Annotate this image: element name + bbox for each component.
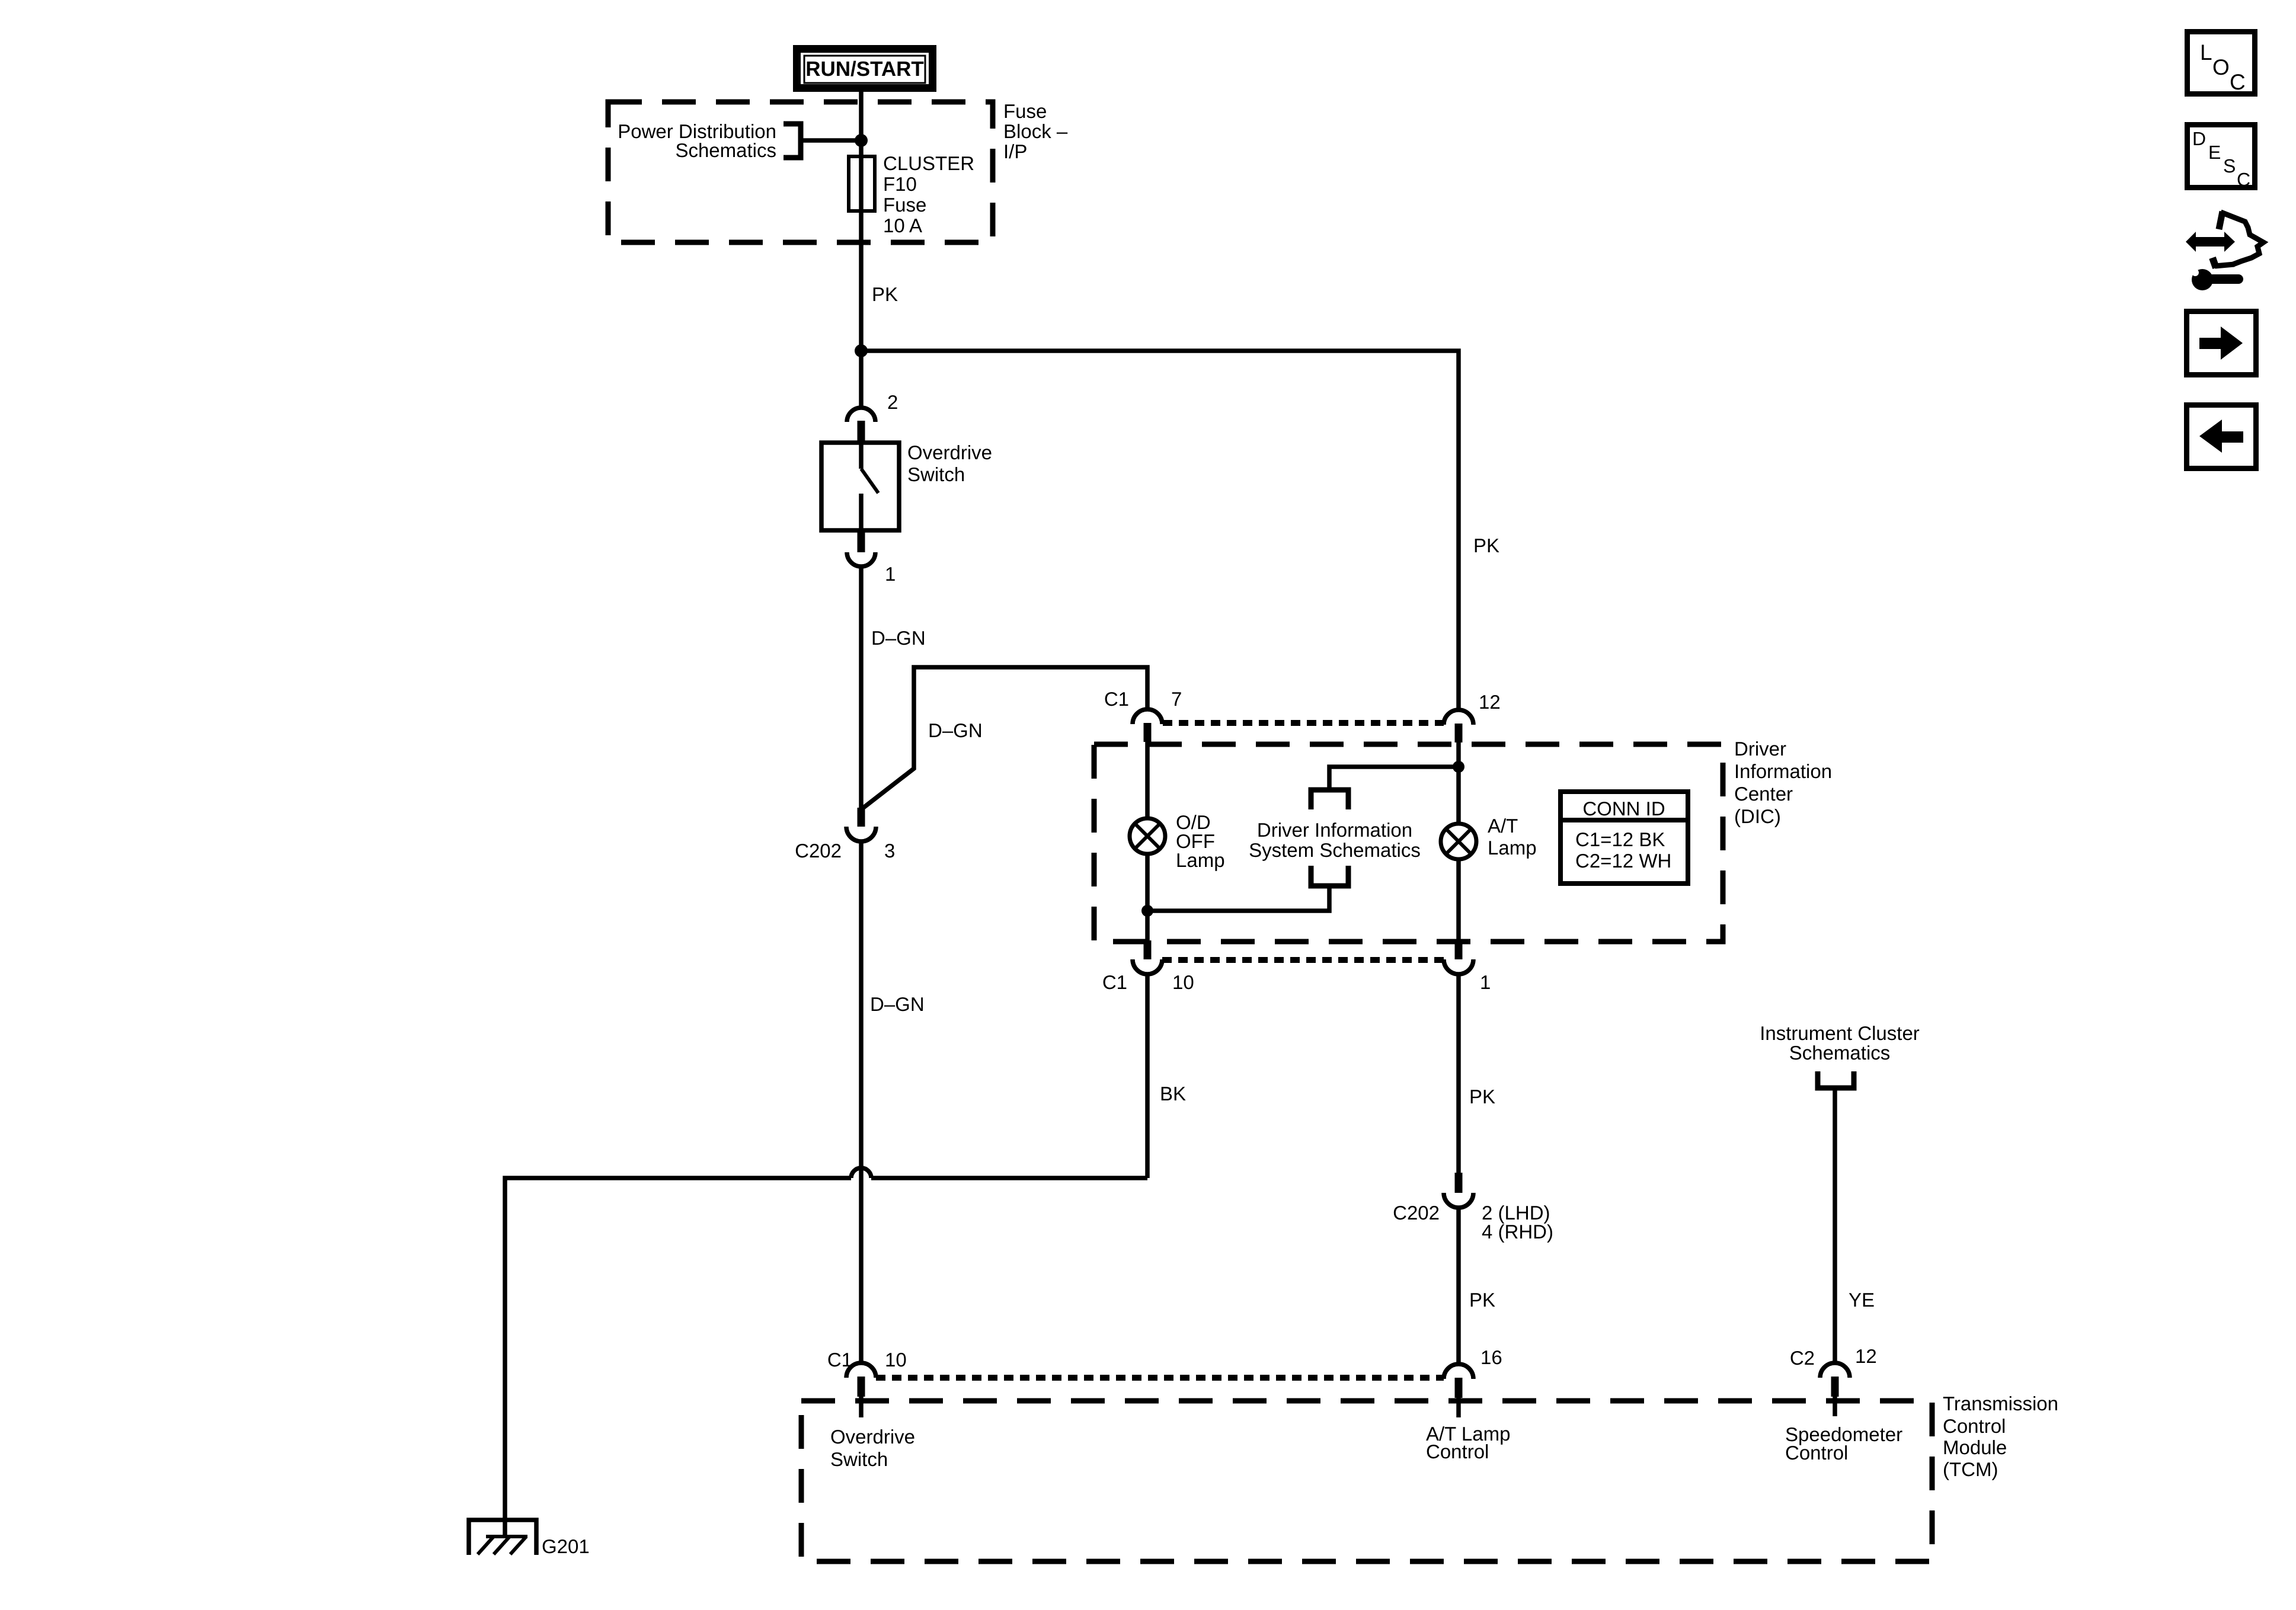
svg-text:Control: Control: [1785, 1442, 1848, 1464]
svg-text:F10: F10: [883, 173, 917, 195]
svg-text:O: O: [2212, 55, 2230, 79]
svg-text:Control: Control: [1943, 1415, 2006, 1437]
svg-text:10: 10: [885, 1349, 907, 1371]
svg-text:C2: C2: [1790, 1347, 1815, 1369]
svg-text:Overdrive: Overdrive: [830, 1426, 915, 1448]
svg-text:2: 2: [887, 391, 898, 413]
svg-text:PK: PK: [872, 283, 898, 305]
svg-text:PK: PK: [1469, 1289, 1495, 1311]
svg-text:CLUSTER: CLUSTER: [883, 152, 974, 174]
svg-text:16: 16: [1480, 1346, 1502, 1368]
svg-text:Driver: Driver: [1734, 738, 1786, 760]
svg-text:Instrument Cluster: Instrument Cluster: [1760, 1022, 1920, 1044]
svg-text:Driver Information: Driver Information: [1257, 819, 1412, 841]
svg-text:BK: BK: [1160, 1083, 1186, 1105]
svg-text:YE: YE: [1849, 1289, 1875, 1311]
svg-text:Block –: Block –: [1003, 120, 1068, 142]
svg-text:Schematics: Schematics: [675, 139, 776, 161]
svg-text:Switch: Switch: [830, 1448, 888, 1470]
svg-text:7: 7: [1171, 688, 1182, 710]
svg-text:D–GN: D–GN: [871, 627, 926, 649]
svg-text:10: 10: [1172, 971, 1194, 993]
svg-text:C1: C1: [1102, 971, 1127, 993]
svg-text:CONN ID: CONN ID: [1582, 798, 1665, 820]
svg-text:Switch: Switch: [907, 463, 965, 485]
svg-text:Fuse: Fuse: [1003, 100, 1047, 122]
svg-text:(DIC): (DIC): [1734, 805, 1781, 827]
svg-text:C202: C202: [1393, 1202, 1440, 1224]
svg-text:Module: Module: [1943, 1436, 2007, 1458]
svg-text:C: C: [2230, 70, 2246, 94]
svg-text:A/T: A/T: [1488, 815, 1518, 837]
svg-text:I/P: I/P: [1003, 140, 1027, 162]
svg-text:D–GN: D–GN: [928, 719, 983, 741]
svg-text:10 A: 10 A: [883, 215, 922, 236]
svg-text:C2=12 WH: C2=12 WH: [1575, 850, 1671, 872]
svg-text:Fuse: Fuse: [883, 194, 926, 216]
svg-text:G201: G201: [542, 1535, 590, 1557]
svg-text:PK: PK: [1473, 534, 1499, 556]
svg-text:C1: C1: [1104, 688, 1129, 710]
svg-text:(TCM): (TCM): [1943, 1458, 1998, 1480]
svg-text:4 (RHD): 4 (RHD): [1482, 1221, 1553, 1243]
svg-text:Schematics: Schematics: [1789, 1042, 1891, 1064]
svg-text:C1: C1: [827, 1349, 852, 1371]
svg-text:L: L: [2200, 40, 2212, 65]
svg-text:C1=12 BK: C1=12 BK: [1575, 828, 1665, 850]
svg-text:PK: PK: [1469, 1086, 1495, 1108]
svg-text:Overdrive: Overdrive: [907, 441, 992, 463]
svg-text:1: 1: [885, 563, 896, 585]
svg-text:Lamp: Lamp: [1176, 849, 1225, 871]
svg-text:RUN/START: RUN/START: [805, 57, 924, 81]
svg-text:12: 12: [1479, 691, 1501, 713]
svg-text:12: 12: [1855, 1345, 1877, 1367]
svg-text:C202: C202: [795, 840, 842, 862]
svg-text:S: S: [2223, 155, 2236, 177]
svg-text:D–GN: D–GN: [870, 993, 925, 1015]
svg-text:C: C: [2237, 169, 2250, 190]
svg-text:3: 3: [884, 840, 895, 862]
svg-text:Lamp: Lamp: [1488, 837, 1537, 859]
svg-text:Information: Information: [1734, 760, 1832, 782]
svg-text:D: D: [2192, 128, 2206, 149]
svg-text:E: E: [2208, 142, 2221, 163]
svg-text:System Schematics: System Schematics: [1249, 839, 1421, 861]
svg-text:Control: Control: [1426, 1441, 1489, 1462]
svg-text:Center: Center: [1734, 783, 1793, 805]
svg-text:Transmission: Transmission: [1943, 1393, 2058, 1414]
svg-text:1: 1: [1480, 971, 1491, 993]
